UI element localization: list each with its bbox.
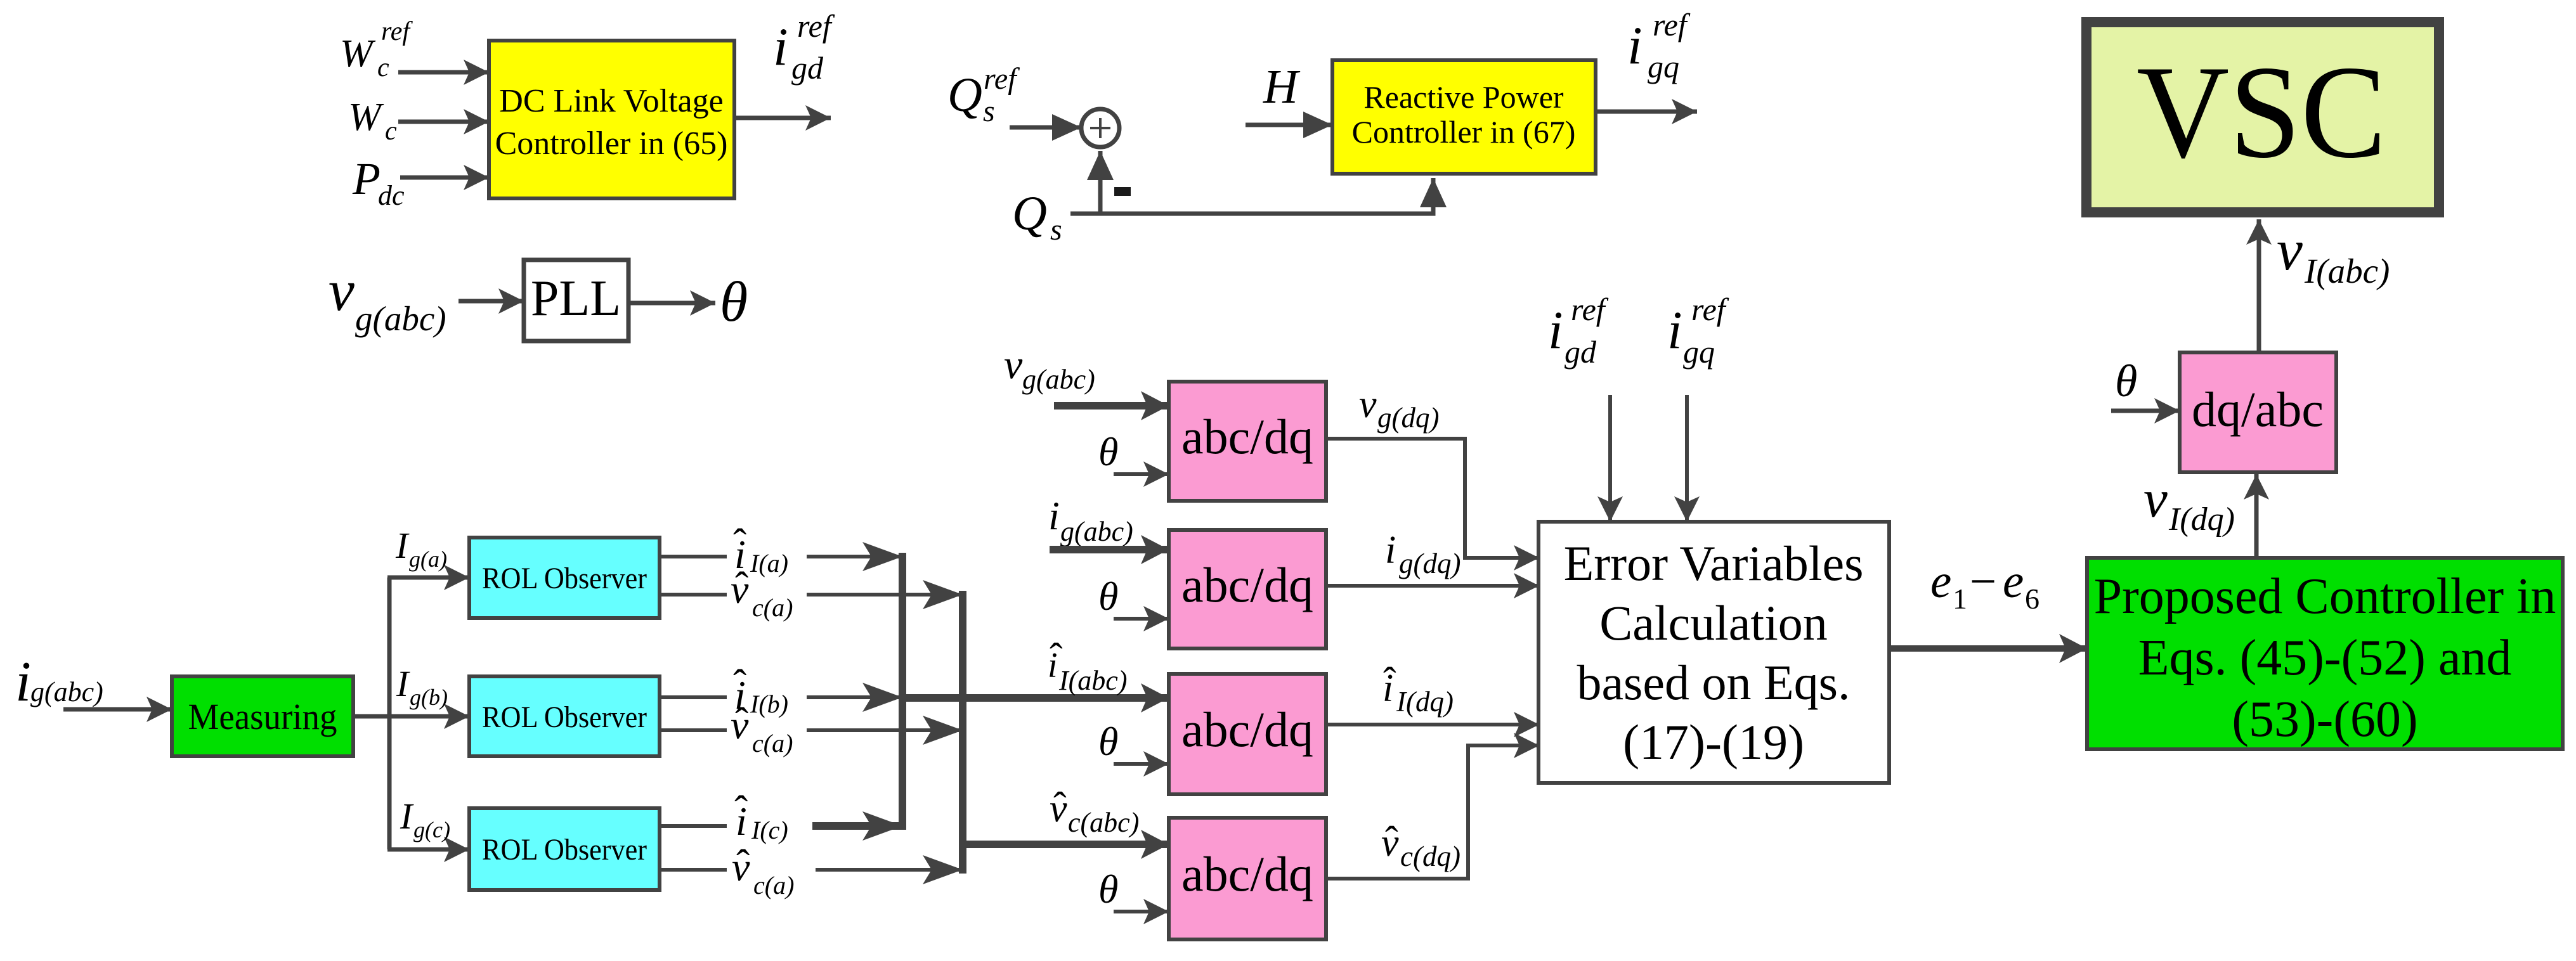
svg-text:ROL Observer: ROL Observer [482,562,647,595]
svg-text:g(abc): g(abc) [1060,516,1133,547]
wire H input [1246,123,1332,127]
svg-text:H: H [1263,60,1301,113]
svg-text:abc/dq: abc/dq [1181,409,1313,464]
block abc/dq 2 [1169,530,1326,648]
wire vhat_c(a) segment from observer 1 [660,593,727,597]
svg-text:−: − [1970,555,1996,608]
label v_g(abc) PLL input [329,258,446,338]
wire branch vertical [387,577,392,849]
block DC Link Voltage Controller [489,41,734,198]
svg-text:I: I [400,796,414,837]
label ihat_I(abc) [1048,636,1128,696]
label ihat_I(c) [734,787,788,844]
svg-text:g(a): g(a) [409,546,447,572]
svg-text:W: W [348,96,384,139]
label i_g(abc) input [15,650,103,713]
svg-text:i: i [15,650,31,713]
wire theta into abc/dq 2 [1114,617,1169,621]
svg-text:Reactive Power: Reactive Power [1363,79,1564,115]
label i_gd^ref (above error box) [1548,292,1609,370]
label vhat_c(abc) [1050,785,1139,838]
svg-text:I(b): I(b) [750,690,788,718]
label vhat_c(a) obs3 [732,841,794,900]
summing junction [1081,109,1119,147]
svg-text:i: i [736,799,747,844]
svg-text:i: i [1048,646,1058,685]
svg-text:i: i [1627,16,1643,75]
wire bus2 vertical [959,591,966,874]
svg-text:I(dq): I(dq) [1396,686,1454,718]
wire i_gd^ref down into error box [1608,395,1612,522]
wire PLL output theta [628,301,715,306]
svg-text:e: e [1930,555,1951,608]
svg-text:abc/dq: abc/dq [1181,702,1313,757]
label W_c^ref [340,17,413,82]
wire theta into abc/dq 4 [1114,910,1169,913]
wire vhat_c(b) segment from observer 2 [660,728,727,732]
block Proposed Controller [2087,558,2563,749]
wire vhat_c(b) to bus2 [807,728,963,732]
wire ihat_I(b) segment from observer 2 [660,695,727,699]
svg-text:gq: gq [1648,49,1679,84]
wire i_gd^ref output [734,116,831,120]
svg-text:v: v [731,567,749,612]
wire i_g(abc) to Measuring [63,707,172,712]
svg-text:based on Eqs.: based on Eqs. [1577,655,1850,710]
svg-text:θ: θ [1098,429,1118,474]
svg-text:i: i [773,17,788,77]
label ihat_I(a) [733,520,788,577]
svg-text:v: v [1050,787,1067,830]
wire e1-e6 error box to proposed controller [1889,645,2087,652]
block dq/abc [2180,352,2336,472]
label v_I(dq) [2143,469,2235,538]
wire v_g(abc) into abc/dq 1 thick [1054,402,1169,410]
svg-text:dc: dc [378,180,405,211]
svg-text:s: s [1050,213,1062,247]
wire I_g(a) to observer 1 [387,576,469,580]
wire vhat_c(a) to bus2 [807,593,963,597]
block ROL Observer 2 [469,676,660,756]
block ROL Observer 3 [469,808,660,890]
svg-text:c(a): c(a) [752,729,793,758]
svg-text:i: i [1385,529,1396,572]
wire ihat_I(b) to bus1 [807,695,902,699]
svg-text:i: i [1667,300,1682,360]
label v_g(abc) box1 [1004,342,1095,395]
wire vhat_c(c) to bus2 [816,868,963,872]
svg-text:v: v [2143,469,2168,529]
svg-text:abc/dq: abc/dq [1181,846,1313,901]
label I_g(c) [400,796,450,842]
svg-text:e: e [2003,555,2024,608]
wire theta into abc/dq 3 [1114,762,1169,766]
svg-text:g(abc): g(abc) [30,676,103,707]
svg-text:ref: ref [1653,7,1691,42]
svg-text:g(dq): g(dq) [1377,402,1439,434]
svg-text:θ: θ [720,271,748,333]
svg-text:i: i [1048,493,1060,538]
label i_gq^ref (above error box) [1667,292,1729,370]
svg-text:s: s [983,94,995,128]
svg-text:Measuring: Measuring [188,696,337,737]
svg-text:gd: gd [791,50,824,86]
svg-text:v: v [2277,217,2303,282]
wire ihat_I(c) segment from observer 3 [660,824,727,828]
svg-text:(17)-(19): (17)-(19) [1623,714,1804,770]
svg-text:g(dq): g(dq) [1399,548,1460,579]
svg-text:g(abc): g(abc) [355,299,446,338]
svg-text:Error Variables: Error Variables [1564,536,1864,591]
block abc/dq 3 [1169,674,1326,794]
svg-text:abc/dq: abc/dq [1181,557,1313,612]
wire Q_s feedback horizontal [1070,178,1433,214]
label vhat_c(dq) [1381,819,1460,872]
svg-text:c: c [377,53,389,82]
wire bus1 vertical [899,553,906,830]
svg-text:g(abc): g(abc) [1022,364,1095,395]
wire theta into abc/dq 1 [1114,472,1169,476]
label i_gq^ref (top) [1627,7,1691,84]
wire I_g(b) to observer 2 [387,714,469,719]
svg-text:1: 1 [1953,583,1967,615]
svg-text:ref: ref [797,8,835,44]
svg-text:I(abc): I(abc) [2304,252,2390,290]
wire ihat_I(a) to bus1 [807,555,902,558]
wire ihat_I(a) segment from observer 1 [660,555,727,558]
wire P_dc input [400,176,489,180]
svg-text:(53)-(60): (53)-(60) [2232,692,2417,747]
wire vhat_c(c) segment from observer 3 [660,868,727,872]
label v_I(abc) [2277,217,2390,290]
label v_g(dq) [1359,383,1439,434]
block abc/dq 4 [1169,818,1326,939]
wire vhat_c(dq) elbow to error box [1326,745,1539,879]
wire W_c^ref input [398,70,489,75]
wire i_g(abc) into abc/dq 2 thick [1050,546,1169,553]
wire v_g(dq) elbow to error box [1326,439,1539,558]
wire Q_s to summing junction vertical [1098,151,1103,214]
label vhat_c(a) obs1 [731,564,793,622]
svg-text:gd: gd [1564,334,1597,370]
block ROL Observer 1 [469,538,660,618]
svg-text:v: v [732,844,750,889]
block Error Variables Calculation [1538,522,1889,783]
svg-text:6: 6 [2025,583,2039,615]
svg-text:ref: ref [1571,292,1609,327]
svg-text:θ: θ [1098,719,1118,764]
svg-text:I: I [396,663,410,704]
label Q_s^ref [947,62,1020,128]
svg-text:VSC: VSC [2137,39,2386,186]
svg-text:θ: θ [1098,867,1118,912]
svg-text:v: v [1004,342,1023,388]
svg-text:Controller in (65): Controller in (65) [495,126,728,162]
svg-text:Eqs. (45)-(52) and: Eqs. (45)-(52) and [2138,630,2512,686]
svg-text:I(dq): I(dq) [2168,501,2235,538]
svg-text:g(c): g(c) [413,817,450,842]
svg-text:c(dq): c(dq) [1400,841,1460,872]
svg-text:I: I [395,525,410,566]
label i_g(dq) [1385,529,1460,579]
svg-text:Proposed Controller in: Proposed Controller in [2094,569,2556,624]
wire vhat_c(abc) thick from bus2 into abc/dq 4 [963,841,1169,848]
svg-text:v: v [731,702,749,747]
wire theta to dq/abc [2111,409,2180,413]
wire Measuring output to branch [353,714,389,719]
wire proposed controller to dq/abc [2254,474,2259,557]
svg-text:I(c): I(c) [751,816,788,844]
svg-text:Q: Q [947,68,982,122]
svg-text:I(a): I(a) [750,549,788,577]
wire dq/abc to VSC [2257,219,2261,352]
label ihat_I(b) [733,661,788,718]
wire ihat_I(dq) to error box [1326,723,1539,726]
wire i_gq^ref output [1596,110,1697,114]
svg-text:c: c [385,117,397,146]
label P_dc [352,153,405,211]
wire Q_s^ref to summing junction [1010,126,1081,130]
svg-text:i: i [1548,300,1563,360]
wire W_c input [398,120,489,124]
svg-text:ref: ref [984,62,1020,96]
label vhat_c(a) obs2 [731,699,793,758]
svg-text:g(b): g(b) [410,685,448,710]
block abc/dq 1 [1169,382,1326,501]
svg-text:c(abc): c(abc) [1068,807,1139,838]
svg-text:P: P [352,153,381,204]
block Measuring [172,676,353,756]
label W_c [348,96,397,146]
svg-text:ROL Observer: ROL Observer [482,700,647,734]
svg-text:v: v [1381,822,1399,865]
label I_g(a) [395,525,447,572]
wire i_gq^ref down into error box [1685,395,1689,522]
svg-text:Q: Q [1012,187,1047,240]
svg-text:c(a): c(a) [753,871,794,900]
block Reactive Power Controller [1332,60,1596,174]
wire v_g(abc) to PLL [459,299,524,304]
svg-text:W: W [340,32,376,75]
label minus sign [1114,187,1131,196]
svg-text:Controller in (67): Controller in (67) [1352,114,1576,150]
wire ihat_I(c) to bus1 thick [812,822,902,830]
block VSC [2086,22,2439,212]
label i_g(abc) box2 [1048,493,1133,547]
svg-text:v: v [1359,383,1377,426]
svg-text:ROL Observer: ROL Observer [482,833,647,867]
svg-text:v: v [329,258,355,323]
label I_g(b) [396,663,448,710]
svg-text:ref: ref [381,17,413,46]
wire i_g(dq) to error box [1326,584,1539,588]
svg-text:θ: θ [2115,356,2137,406]
label e_1 - e_6 [1930,555,2039,615]
svg-text:gq: gq [1683,334,1715,370]
label Q_s [1012,187,1062,247]
svg-text:PLL: PLL [531,271,621,326]
svg-text:i: i [1382,667,1393,710]
wire I_g(c) to observer 3 [387,848,469,852]
svg-text:θ: θ [1098,574,1118,619]
svg-text:I(abc): I(abc) [1058,665,1128,696]
label i_gd^ref (top left) [773,8,835,86]
svg-text:c(a): c(a) [752,593,793,622]
wire ihat_I(abc) thick from bus1 into abc/dq 3 [902,694,1169,702]
svg-text:Calculation: Calculation [1599,595,1828,650]
svg-text:ref: ref [1691,292,1729,327]
svg-text:dq/abc: dq/abc [2192,382,2324,437]
block PLL [524,260,628,341]
svg-text:DC Link Voltage: DC Link Voltage [499,83,723,119]
label ihat_I(dq) [1382,660,1454,718]
